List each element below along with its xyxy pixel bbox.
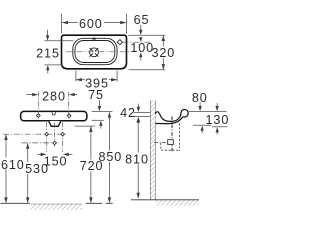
- front view: drain diamond on 530 line: [53, 141, 57, 145]
- svg-text:810: 810: [125, 152, 149, 166]
- text backgrounds for dimension lines passing through labels: [78, 17, 104, 28]
- dimension 720 extension line: [75, 125, 95, 127]
- extension line (130 bottom right): [212, 126, 227, 128]
- svg-text:80: 80: [192, 91, 208, 105]
- dimension 42 extension lines: [134, 111, 151, 113]
- side view: drain axis centerline: [171, 117, 173, 153]
- front view: vertical drain centerline: [54, 123, 56, 148]
- wall (side view, hatched): [150, 100, 155, 199]
- dimension 600 line and arrows: [62, 22, 126, 24]
- front view: fixing diamond on 610 line right: [61, 132, 65, 136]
- front view: vertical centerline right fixing (280): [68, 92, 70, 119]
- plan view: tap hole centerline extension: [123, 41, 152, 43]
- dimension 42 arrows: [137, 104, 139, 107]
- floor line segment under 850: [106, 202, 113, 204]
- side view: waste outlet centerline to wall: [154, 142, 167, 144]
- dimension 100 bottom arrow (drawn over label gap): [139, 52, 142, 57]
- plan view: bowl outer edge: [73, 38, 117, 64]
- dimension 600 extension lines: [61, 14, 63, 34]
- dimension 320 line: [162, 35, 164, 69]
- front view: horizontal centerline at 610 level: [3, 133, 68, 135]
- svg-text:42: 42: [120, 106, 136, 120]
- dimension 65 arrow: [140, 25, 142, 30]
- svg-text:150: 150: [44, 154, 68, 168]
- svg-text:600: 600: [79, 17, 103, 31]
- extension line under basin (130 bottom left): [193, 124, 211, 126]
- plan view: bowl inner edge: [75, 41, 115, 63]
- plan view: overflow mark on bowl top edge: [92, 38, 95, 40]
- front view: vertical centerline left (150): [46, 122, 48, 152]
- floor (side view, hatched): [131, 200, 199, 206]
- dimension 280 line and arrows: [26, 94, 33, 96]
- svg-text:320: 320: [151, 46, 175, 60]
- side view: waste outlet square: [168, 140, 174, 145]
- side view: hidden trap left dashed line: [160, 143, 162, 151]
- dimension 75 extension lines: [92, 111, 113, 113]
- front view: drain boss below basin: [49, 121, 61, 126]
- dimension 100 top arrow: [139, 37, 142, 42]
- dimension 530 line: [27, 143, 29, 202]
- front view: overflow notch: [52, 112, 56, 115]
- dimension 150 line and arrows: [37, 153, 41, 155]
- svg-text:65: 65: [134, 13, 150, 27]
- svg-text:610: 610: [1, 158, 25, 172]
- svg-text:215: 215: [36, 47, 60, 61]
- plan view: drain symbol ticks: [90, 48, 99, 57]
- floor line left segment (front view): [1, 202, 30, 204]
- dimension 720 line: [90, 126, 92, 202]
- dimension 850 line: [108, 112, 110, 203]
- svg-text:75: 75: [88, 88, 104, 102]
- side view: basin front rim roll: [181, 109, 188, 117]
- side view: basin bowl inner profile: [155, 112, 181, 122]
- dimension 130 bottom arrows: [201, 126, 204, 131]
- front view: horizontal centerline at 530 level: [22, 142, 58, 144]
- front view: left fixing hole diamond: [36, 114, 40, 118]
- dimension 80 arrow: [199, 102, 201, 106]
- floor (front view, hatched strip): [31, 204, 82, 210]
- floor line segment under 720: [86, 202, 102, 204]
- front view: vertical centerline right (150): [62, 122, 64, 152]
- side view: basin white body mask: [155, 111, 188, 124]
- front view: right fixing hole diamond: [67, 114, 71, 118]
- extension line bottom edge right (320): [129, 69, 166, 71]
- svg-text:130: 130: [206, 113, 228, 127]
- side view: hidden trap bottom dashed line: [161, 149, 180, 151]
- dimension 75 arrows: [98, 100, 100, 106]
- plan view: basin outer rim: [62, 35, 127, 69]
- front view: basin body: [21, 111, 87, 120]
- plan view: drain symbol circle: [90, 48, 99, 57]
- dimension 215 extension lines: [44, 40, 73, 42]
- side view: basin underside: [155, 117, 182, 124]
- side view: hidden trap right dashed line: [179, 124, 181, 152]
- dimension 610 line: [5, 135, 7, 203]
- dimension 395 extension lines: [75, 70, 77, 81]
- svg-text:850: 850: [98, 150, 122, 164]
- dimension 80/130 extension line (rim top): [189, 111, 227, 113]
- front view: fixing diamond on 610 line left: [45, 132, 49, 136]
- plan view: tap hole diamond: [117, 40, 122, 45]
- dimension 130 top arrow: [216, 103, 218, 106]
- dimension 215 arrows: [47, 30, 49, 36]
- plan view: horizontal centerline through bowl: [66, 51, 150, 53]
- dimension 810 line: [137, 122, 139, 198]
- dimension 395 line and arrows: [76, 79, 85, 81]
- svg-text:280: 280: [42, 89, 66, 103]
- front view: vertical centerline left fixing (280): [37, 92, 39, 119]
- extension line top edge right (65/320): [128, 34, 165, 36]
